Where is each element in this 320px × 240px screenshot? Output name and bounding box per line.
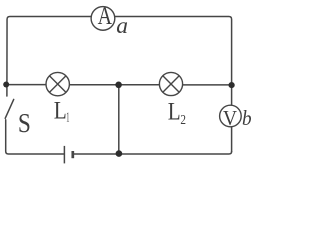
svg-text:L: L: [168, 96, 181, 125]
svg-text:V: V: [223, 106, 237, 130]
svg-text:b: b: [242, 106, 252, 130]
svg-text:L: L: [54, 98, 67, 125]
wire middle rail centre segment: [70, 84, 160, 86]
wire right rail below voltmeter: [231, 127, 233, 152]
svg-text:S: S: [18, 108, 31, 138]
voltmeter circle: [220, 105, 242, 127]
svg-text:a: a: [116, 13, 128, 39]
battery long plate: [63, 146, 65, 164]
lamp L1 cross: [49, 76, 66, 93]
wire bottom rail left of battery + left rail below switch: [6, 120, 65, 154]
wire middle rail left segment: [6, 84, 46, 86]
ammeter circle: [91, 7, 115, 31]
junction node middle bottom: [116, 150, 123, 157]
wire middle branch vertical: [118, 85, 120, 154]
lamp L1 circle: [46, 72, 69, 95]
junction node middle top: [115, 82, 122, 89]
svg-text:1: 1: [66, 110, 69, 125]
junction node left: [3, 82, 9, 88]
lamp L2 circle: [159, 72, 182, 95]
wire top rail from ammeter + right rail down to voltmeter: [115, 17, 232, 106]
junction node right: [229, 82, 235, 88]
svg-text:2: 2: [180, 113, 186, 128]
lamp L2 cross: [163, 76, 179, 92]
switch S blade: [5, 99, 14, 118]
wire left rail top + top rail to ammeter: [7, 17, 91, 97]
battery short plate: [71, 151, 74, 158]
wire middle rail right segment: [183, 84, 232, 86]
wire bottom rail right of battery: [74, 152, 232, 155]
svg-text:A: A: [98, 3, 112, 30]
